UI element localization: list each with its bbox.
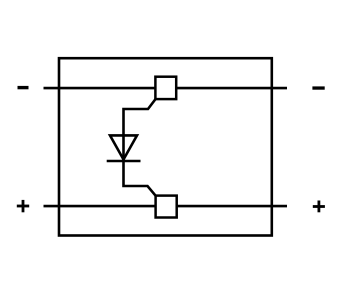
clamp contact (top square) [155,77,176,99]
diode D1 cathode bar [107,160,141,163]
clamp contact (bottom square) [156,196,177,218]
polarity label: left plus [17,200,29,212]
terminal block outline [59,58,272,235]
wire: top (minus) rail [44,87,288,90]
polarity label: left minus [18,86,29,89]
polarity label: right plus [313,201,325,213]
wire: internal link from top clamp to bottom clamp through diode [124,99,156,196]
diode D1 triangle (anode) [110,135,137,159]
wire: bottom (plus) rail [44,205,288,208]
polarity label: right minus [312,86,324,89]
